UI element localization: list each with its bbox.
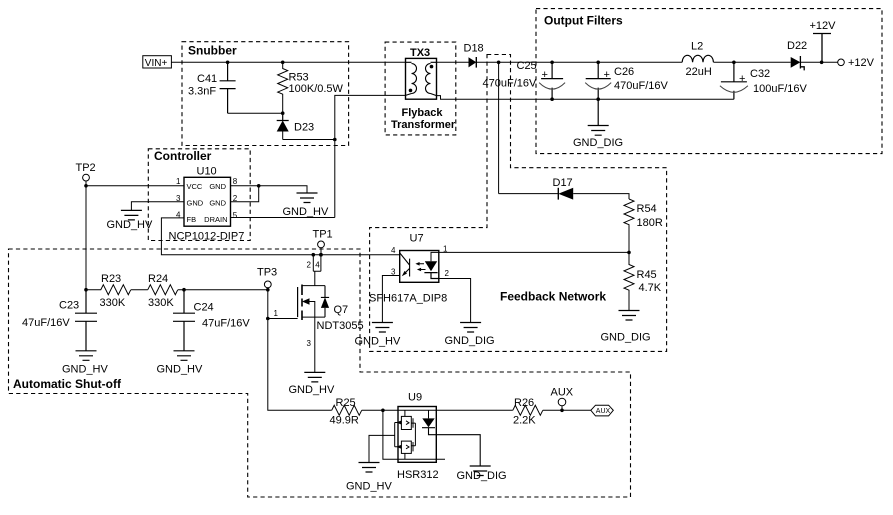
wire through U9 to R26	[398, 409, 513, 411]
svg-text:D22: D22	[787, 40, 807, 52]
svg-text:GND_DIG: GND_DIG	[601, 332, 651, 344]
svg-text:+12V: +12V	[810, 20, 837, 32]
svg-text:1: 1	[274, 309, 279, 318]
svg-text:C25: C25	[517, 60, 537, 72]
wire U7 pin2 to ground	[439, 279, 471, 323]
svg-text:330K: 330K	[148, 297, 174, 309]
svg-text:AUX: AUX	[551, 387, 574, 399]
wire D23 to drain vertical	[283, 139, 335, 141]
Output Filters dashed box	[536, 9, 882, 154]
wire D18 to output node	[476, 61, 552, 63]
relay U9	[397, 392, 439, 482]
svg-text:R54: R54	[637, 203, 657, 215]
node +12V rail junction	[820, 61, 824, 65]
svg-text:GND_DIG: GND_DIG	[457, 470, 507, 482]
wire C41 bottom to R53 bottom	[228, 112, 283, 114]
wire feedback tap to D17	[499, 193, 559, 195]
wire D17 to R54	[573, 194, 629, 199]
node C25 top junction	[550, 61, 554, 65]
svg-text:GND_HV: GND_HV	[355, 336, 402, 348]
wire FB net bus to U7 pin4	[314, 254, 400, 256]
svg-text:Q7: Q7	[334, 304, 349, 316]
svg-text:5: 5	[233, 211, 238, 220]
svg-text:1: 1	[443, 245, 448, 254]
capacitor C23	[22, 290, 97, 351]
wire U7 pin1 to R54/R45 junction	[439, 251, 629, 253]
ground GND_HV at pin8	[283, 193, 330, 218]
svg-text:D23: D23	[294, 122, 314, 134]
wire R24 to TP3	[178, 289, 268, 291]
test point AUX	[551, 387, 574, 411]
resistor R45	[624, 252, 662, 310]
wire gate	[268, 318, 298, 320]
svg-text:4: 4	[391, 246, 396, 255]
svg-text:4: 4	[315, 261, 320, 270]
node feedback tap junction	[497, 61, 501, 65]
capacitor C26	[585, 62, 668, 99]
svg-text:R23: R23	[101, 273, 121, 285]
resistor R53	[278, 62, 344, 113]
svg-text:C32: C32	[750, 68, 770, 80]
svg-text:47uF/16V: 47uF/16V	[202, 318, 250, 330]
node C25 bottom junction	[550, 97, 554, 101]
svg-text:R26: R26	[514, 397, 534, 409]
svg-text:Transformer: Transformer	[391, 119, 456, 131]
pin 4 FB label	[176, 211, 196, 224]
svg-text:Output Filters: Output Filters	[544, 14, 623, 28]
capacitor C41	[188, 62, 236, 113]
svg-text:+: +	[604, 69, 610, 81]
pin 3 GND label	[176, 194, 204, 208]
node R23 left junction	[84, 288, 88, 292]
wire TX3 secondary top to D18	[437, 61, 469, 63]
Feedback Network dashed outline	[370, 55, 667, 352]
LED inside U7	[424, 252, 438, 278]
svg-text:DRAIN: DRAIN	[204, 215, 227, 224]
svg-text:C26: C26	[614, 66, 634, 78]
pin 8 GND label	[209, 177, 237, 191]
svg-text:SFH617A_DIP8: SFH617A_DIP8	[369, 293, 447, 305]
svg-text:C24: C24	[194, 302, 214, 314]
svg-text:3.3nF: 3.3nF	[188, 86, 216, 98]
power +12V rail symbol	[810, 20, 837, 62]
wire TP2 down to shut-off network	[85, 186, 87, 290]
ground GND_HV at pin3	[107, 210, 154, 231]
svg-text:U10: U10	[197, 166, 217, 178]
node C32 junction	[732, 61, 736, 65]
wire Q7 source to ground	[314, 317, 316, 372]
wire R26 to AUX flag	[543, 409, 591, 411]
svg-text:330K: 330K	[100, 297, 126, 309]
svg-text:100uF/16V: 100uF/16V	[753, 83, 807, 95]
resistor R26	[513, 397, 543, 427]
svg-text:Controller: Controller	[154, 149, 212, 163]
inductor L2	[682, 41, 713, 79]
diode D23	[277, 113, 314, 139]
svg-text:NDT3055: NDT3055	[317, 320, 364, 332]
Snubber dashed box	[182, 42, 349, 146]
svg-text:1: 1	[176, 177, 181, 186]
svg-text:GND_HV: GND_HV	[289, 384, 336, 396]
ground GND_DIG under C26	[573, 99, 623, 149]
wire U9 gate tie to ground	[369, 423, 395, 463]
wire TX3 secondary bottom bus	[437, 96, 734, 100]
svg-text:GND_DIG: GND_DIG	[573, 137, 623, 149]
optocoupler U7	[369, 233, 447, 305]
svg-text:GND_HV: GND_HV	[157, 364, 204, 376]
svg-text:GND: GND	[209, 182, 226, 191]
svg-text:2: 2	[445, 269, 450, 278]
node C41 top junction	[226, 61, 230, 65]
wire L2 to D22	[714, 61, 791, 63]
svg-text:AUX: AUX	[596, 408, 611, 415]
op-amp U10 controller IC	[169, 166, 245, 243]
Flyback Transformer dashed box	[385, 42, 456, 135]
resistor R23	[86, 273, 131, 309]
node R53/C41/D23 junction	[281, 111, 285, 115]
wire U9 bottom rail	[383, 410, 445, 459]
svg-text:Snubber: Snubber	[188, 44, 237, 58]
node Q7 drain pin2 junction	[312, 253, 316, 257]
svg-text:2: 2	[307, 261, 312, 270]
Automatic Shut-off dashed outline	[9, 249, 631, 497]
svg-text:180R: 180R	[637, 217, 663, 229]
node C26 bottom junction	[596, 97, 600, 101]
pin 5 DRAIN label	[204, 211, 238, 224]
resistor R24	[148, 273, 178, 309]
svg-text:GND_HV: GND_HV	[107, 219, 154, 231]
svg-text:470uF/16V: 470uF/16V	[614, 80, 668, 92]
node Q7 drain pin4 junction	[319, 253, 323, 257]
ground GND_HV at U7 pin3	[355, 323, 402, 348]
terminal +12V output	[838, 57, 875, 69]
diode D17	[553, 177, 574, 200]
node AUX junction	[560, 409, 564, 413]
resistor R25	[330, 397, 362, 427]
svg-text:GND_HV: GND_HV	[346, 481, 393, 493]
test point TP3	[257, 267, 277, 290]
net flag AUX	[591, 405, 614, 416]
ground GND_HV under C23	[62, 351, 109, 376]
ground GND_DIG at U7 pin2	[445, 323, 495, 348]
svg-text:C23: C23	[59, 300, 79, 312]
node pin8/pin2 junction	[257, 184, 261, 188]
svg-text:U7: U7	[410, 233, 424, 245]
capacitor C32	[720, 62, 808, 99]
node R53 top junction	[281, 61, 285, 65]
LED inside U9	[422, 410, 480, 466]
wire TP3 down to gate and R25	[268, 290, 332, 411]
svg-text:22uH: 22uH	[686, 66, 712, 78]
wire GND pin3	[131, 202, 184, 211]
capacitor C25	[483, 60, 566, 99]
svg-text:D17: D17	[553, 177, 573, 189]
node TP1 junction	[319, 253, 323, 257]
transistor lower MOSFET inside U9	[395, 441, 416, 459]
svg-text:4.7K: 4.7K	[639, 282, 662, 294]
wire VIN+ to TX3 primary	[171, 61, 405, 63]
svg-text:TX3: TX3	[410, 47, 430, 59]
wire feedback tap vertical	[498, 62, 500, 193]
test point TP2	[76, 162, 96, 186]
diode D18	[464, 43, 484, 68]
svg-text:FB: FB	[187, 215, 197, 224]
transistor upper MOSFET inside U9	[395, 410, 416, 429]
node C24 junction	[182, 288, 186, 292]
node U9 input junction	[381, 409, 385, 413]
node gate junction	[266, 317, 270, 321]
wire D22 to +12V terminal	[800, 61, 838, 63]
pin 1 VCC label	[176, 177, 203, 191]
wire GND pin2 jog	[231, 186, 259, 202]
resistor R54	[624, 199, 663, 252]
svg-text:VCC: VCC	[187, 182, 203, 191]
svg-text:+12V: +12V	[848, 57, 875, 69]
svg-text:VIN+: VIN+	[145, 58, 168, 69]
terminal VIN+	[143, 56, 172, 69]
Controller dashed box	[148, 149, 250, 241]
svg-text:R53: R53	[289, 72, 309, 84]
diode D22	[787, 40, 807, 70]
svg-text:Automatic Shut-off: Automatic Shut-off	[13, 377, 122, 391]
wire R25 to U9	[362, 409, 398, 411]
svg-text:TP2: TP2	[76, 162, 96, 174]
svg-text:TP3: TP3	[257, 267, 277, 279]
svg-text:GND: GND	[209, 199, 226, 208]
node C26 top junction	[596, 61, 600, 65]
transformer TX3	[406, 58, 437, 99]
svg-text:GND_DIG: GND_DIG	[445, 335, 495, 347]
svg-text:+: +	[739, 73, 745, 85]
svg-text:8: 8	[233, 177, 238, 186]
ground GND_HV under Q7	[289, 372, 336, 396]
wire U7 pin3 to ground	[382, 276, 399, 323]
svg-text:C41: C41	[197, 73, 217, 85]
svg-text:GND_HV: GND_HV	[283, 206, 330, 218]
svg-text:49.9R: 49.9R	[330, 415, 359, 427]
wire output node to L2	[552, 61, 682, 63]
svg-text:GND: GND	[187, 199, 204, 208]
wire drain vertical to TX3 primary bottom	[335, 95, 406, 217]
svg-text:100K/0.5W: 100K/0.5W	[289, 83, 344, 95]
svg-text:L2: L2	[691, 41, 703, 53]
svg-text:GND_HV: GND_HV	[62, 364, 109, 376]
svg-text:3: 3	[307, 339, 312, 348]
test point TP1	[313, 229, 333, 255]
svg-text:R45: R45	[637, 269, 657, 281]
ground GND_DIG at U9	[457, 466, 507, 482]
svg-text:HSR312: HSR312	[397, 469, 439, 481]
svg-text:Flyback: Flyback	[402, 107, 444, 119]
svg-text:U9: U9	[408, 392, 422, 404]
svg-text:R25: R25	[336, 397, 356, 409]
wire GND pin8 to ground	[231, 186, 308, 193]
wire DRAIN pin5 to drain vertical	[231, 217, 335, 219]
node TP3 junction	[266, 288, 270, 292]
ground GND_DIG under R45	[601, 311, 651, 344]
capacitor C24	[173, 290, 250, 351]
svg-text:R24: R24	[148, 273, 168, 285]
ground GND_HV at U9	[346, 463, 393, 493]
svg-text:TP1: TP1	[313, 229, 333, 241]
svg-text:Feedback Network: Feedback Network	[500, 290, 606, 304]
transistor Q7	[298, 255, 364, 332]
wire VCC pin1 to TP2	[86, 185, 184, 187]
node R54/R45/opto junction	[627, 251, 631, 255]
pin 2 GND label	[209, 194, 237, 208]
node snubber/drain junction	[333, 138, 337, 142]
wire MOSFET source link inside U9	[414, 423, 416, 446]
svg-text:2.2K: 2.2K	[513, 415, 536, 427]
svg-text:D18: D18	[464, 43, 484, 55]
svg-text:47uF/16V: 47uF/16V	[22, 317, 70, 329]
svg-text:470uF/16V: 470uF/16V	[483, 78, 537, 90]
wire FB pin4 down to FB net	[161, 218, 313, 255]
svg-text:NCP1012-DIP7: NCP1012-DIP7	[169, 231, 245, 243]
light arrows inside U7	[415, 262, 425, 271]
node TP2 junction	[84, 184, 88, 188]
wire R23 to R24	[131, 289, 148, 291]
svg-text:+: +	[542, 69, 548, 81]
ground GND_HV under C24	[157, 351, 204, 376]
transistor inside U7	[400, 253, 410, 277]
